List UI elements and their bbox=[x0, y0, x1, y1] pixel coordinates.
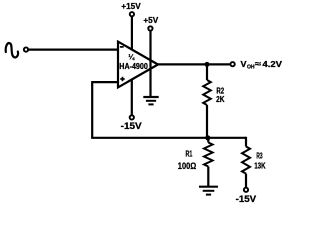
svg-text:100Ω: 100Ω bbox=[178, 161, 196, 171]
wire op-amp V- pin to -15V terminal bbox=[131, 80, 133, 115]
ground symbol below R1 bbox=[199, 186, 218, 188]
op-amp inverting input mark bbox=[120, 46, 124, 48]
svg-text:+15V: +15V bbox=[121, 2, 141, 11]
ground symbol below op-amp bbox=[143, 96, 158, 98]
wire R1 to ground bbox=[207, 167, 209, 187]
svg-text:HA-4900: HA-4900 bbox=[119, 62, 148, 71]
wire output node to R2 bbox=[206, 64, 208, 80]
svg-text:R3: R3 bbox=[256, 152, 263, 161]
resistor R3 bbox=[242, 147, 250, 174]
wire junction to R1 bbox=[207, 138, 209, 143]
wire input terminal to inverting input bbox=[29, 48, 118, 50]
wire R3 to -15V terminal bbox=[245, 174, 247, 188]
+5V supply terminal bbox=[148, 26, 152, 30]
input source (AC squiggle) bbox=[6, 43, 18, 57]
+15V supply terminal bbox=[130, 12, 134, 16]
svg-text:13K: 13K bbox=[254, 161, 266, 171]
svg-text:2K: 2K bbox=[216, 95, 225, 104]
junction node at output / R2 top bbox=[205, 62, 210, 67]
wire op-amp output to output terminal bbox=[156, 63, 230, 65]
-15V supply terminal (R3) bbox=[244, 188, 248, 192]
op-amp non-inverting input mark bbox=[120, 78, 124, 80]
svg-text:+5V: +5V bbox=[143, 16, 158, 25]
wire junction to R3 branch bbox=[208, 137, 246, 139]
wire R2 bottom to junction node bbox=[206, 105, 208, 138]
svg-text:R1: R1 bbox=[186, 150, 193, 159]
-15V supply terminal (op-amp) bbox=[130, 115, 134, 119]
output terminal bbox=[230, 62, 234, 66]
resistor R1 bbox=[204, 143, 213, 167]
input terminal bbox=[24, 47, 28, 51]
svg-text:≈: ≈ bbox=[255, 60, 262, 69]
junction node at feedback / R1 / R3 bbox=[205, 135, 210, 140]
wire +5V through logic-supply pin down to ground pin bbox=[149, 31, 151, 97]
wire +15V to op-amp V+ pin bbox=[131, 17, 133, 50]
svg-text:4.2V: 4.2V bbox=[262, 60, 282, 69]
svg-text:OH: OH bbox=[247, 64, 255, 70]
resistor R2 bbox=[203, 80, 211, 105]
svg-text:-15V: -15V bbox=[236, 194, 257, 204]
feedback wire from non-inverting input bbox=[92, 82, 208, 138]
svg-text:-15V: -15V bbox=[121, 121, 142, 131]
wire down to R3 bbox=[245, 137, 247, 147]
op-amp U1 (1/4 HA-4900) triangle bbox=[118, 42, 158, 88]
